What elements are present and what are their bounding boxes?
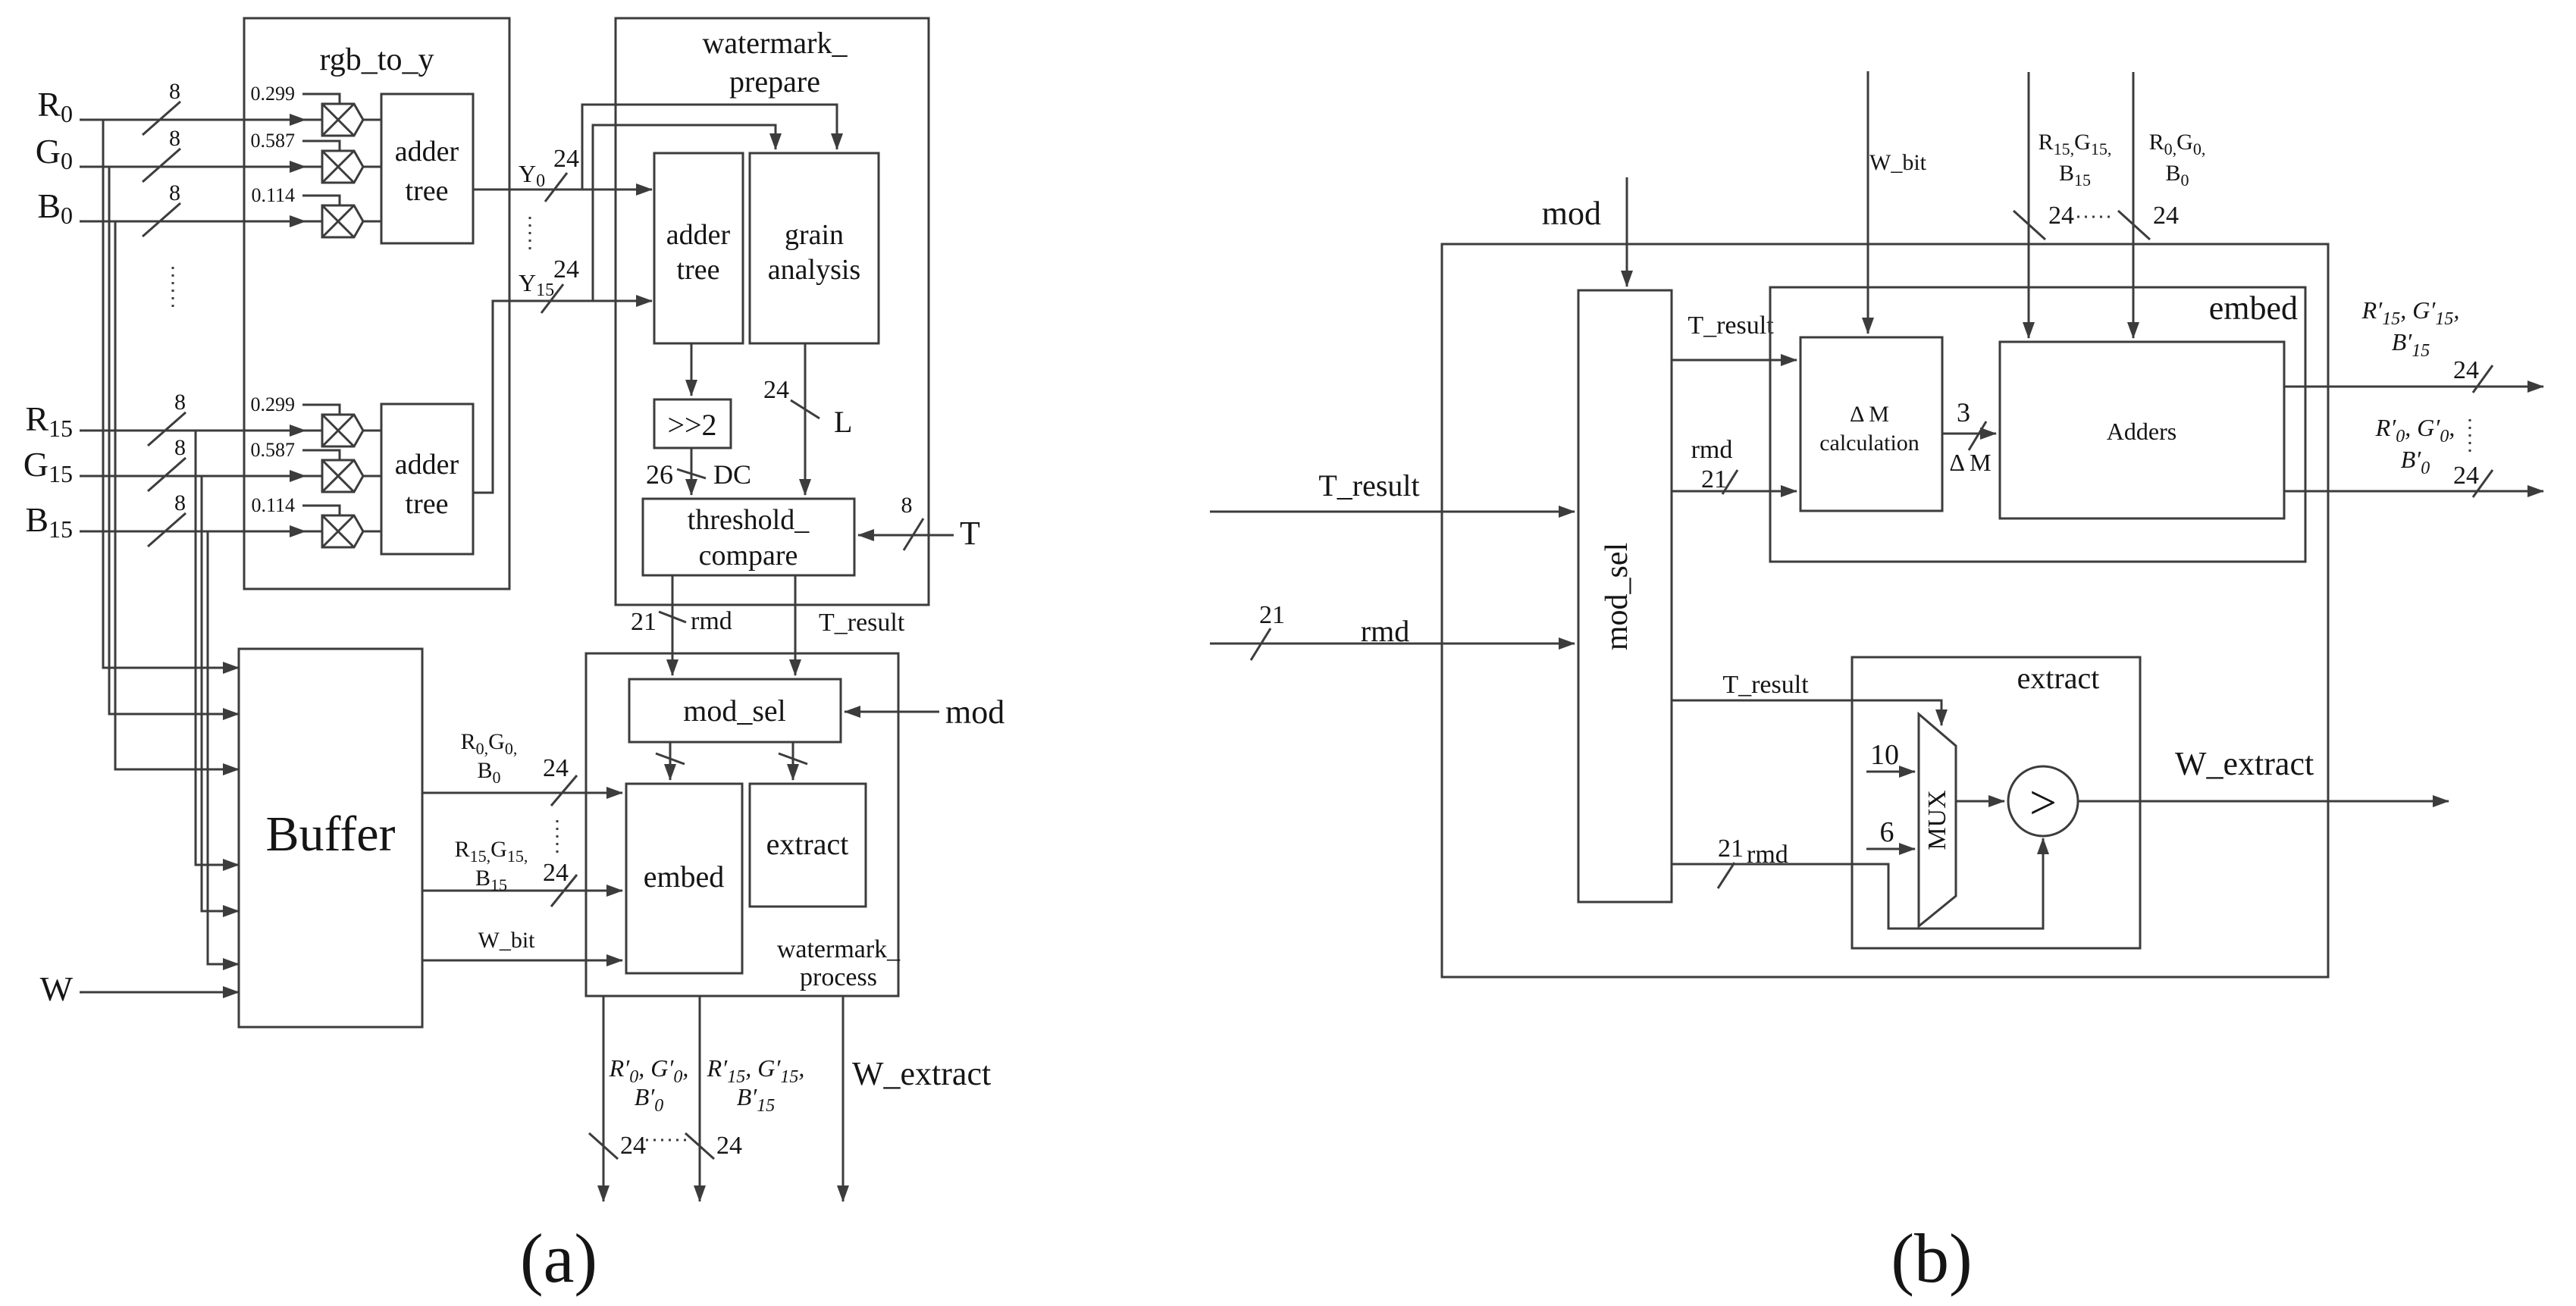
node constant 10 (1870, 739, 1899, 771)
svg-text:T_result: T_result (819, 609, 905, 637)
svg-text:24: 24 (543, 754, 569, 782)
wire R0G0B0 to Adders (2133, 72, 2135, 338)
wire mult G15 to adder tree B (363, 475, 381, 478)
wire Y0 riser to grain analysis (582, 105, 837, 189)
svg-text:0.114: 0.114 (251, 184, 295, 206)
svg-text:rmd: rmd (1691, 436, 1733, 464)
wire B15 branch to Buffer (208, 531, 239, 964)
svg-text:24: 24 (763, 376, 789, 404)
node Y0 (519, 145, 579, 202)
svg-text:process: process (800, 963, 877, 991)
svg-text:24: 24 (543, 859, 569, 887)
svg-text:24: 24 (716, 1132, 742, 1160)
svg-text:mod: mod (945, 694, 1004, 731)
svg-text:0.114: 0.114 (251, 494, 295, 516)
svg-text:W: W (40, 969, 74, 1008)
block mod_sel (a) (629, 679, 841, 742)
wire grain analysis to threshold_compare (L) (804, 343, 807, 495)
wire T to threshold_compare (858, 534, 954, 537)
wire Adders output R'0 (2284, 490, 2543, 493)
node R'0,G'0,B'0 label (609, 1054, 689, 1116)
wire dM calculation to Adders (1942, 433, 1996, 435)
wire G15 branch to Buffer (202, 476, 239, 911)
wire R15 input (80, 424, 322, 437)
svg-text:Δ M: Δ M (1850, 402, 1889, 427)
node R'15,G'15,B'15 label (707, 1054, 805, 1116)
dots between outputs (b) (2469, 419, 2471, 453)
svg-text:24: 24 (2453, 356, 2479, 384)
svg-text:21: 21 (631, 608, 657, 636)
multiplier 0.299 (R0) (322, 104, 363, 136)
svg-text:3: 3 (1957, 397, 1970, 428)
block threshold_compare (643, 499, 854, 575)
svg-text:(a): (a) (520, 1220, 597, 1297)
bus width 8 (G0) (143, 126, 180, 182)
bus width 21 rmd (631, 607, 732, 636)
svg-text:mod_sel: mod_sel (1600, 543, 1634, 650)
svg-text:R15: R15 (25, 399, 73, 442)
wire output R'15 G'15 B'15 (699, 996, 701, 1201)
bus width 26 DC (646, 459, 751, 490)
wire G0 branch to Buffer (109, 167, 239, 714)
wire constant 10 to MUX (1866, 771, 1915, 773)
svg-text:watermark_: watermark_ (702, 26, 848, 60)
svg-text:threshold_: threshold_ (688, 504, 810, 536)
node R15,G15,B15 (b top) (2013, 130, 2111, 240)
bus width 3 dM (1949, 397, 1991, 476)
wire W input to Buffer (80, 991, 239, 994)
multiplier 0.587 (G0) (322, 151, 363, 183)
svg-text:0.299: 0.299 (251, 393, 296, 415)
svg-text:W_bit: W_bit (1869, 150, 1927, 175)
svg-text:>>2: >>2 (667, 408, 716, 442)
svg-text:DC: DC (713, 459, 751, 490)
svg-text:T_result: T_result (1318, 468, 1419, 503)
bus width 24 (b out2) (2453, 462, 2493, 497)
svg-text:adder: adder (666, 219, 731, 251)
svg-text:8: 8 (174, 435, 186, 460)
svg-text:analysis: analysis (768, 254, 860, 286)
svg-text:compare: compare (699, 540, 798, 572)
svg-text:calculation: calculation (1819, 431, 1919, 456)
svg-text:W_extract: W_extract (852, 1055, 991, 1092)
svg-text:Y0: Y0 (519, 160, 545, 191)
wire rmd input to mod_sel (b) (1210, 643, 1575, 645)
svg-text:R15,G15,: R15,G15, (455, 837, 528, 866)
wire output R'0 G'0 B'0 (603, 996, 605, 1201)
svg-text:Buffer: Buffer (265, 806, 395, 862)
block extract (b) (1852, 657, 2140, 948)
wire mod_sel T_result to MUX select (1672, 700, 1941, 725)
svg-text:8: 8 (169, 180, 180, 205)
svg-text:G15: G15 (24, 445, 73, 487)
svg-text:MUX: MUX (1923, 790, 1951, 850)
svg-text:R0: R0 (37, 85, 73, 127)
bus width 8 (R15) (148, 390, 186, 446)
svg-text:grain: grain (785, 219, 844, 251)
svg-text:mod_sel: mod_sel (683, 694, 786, 728)
block mod_sel (b) (1578, 290, 1672, 902)
wire mod to mod_sel (a) (845, 711, 939, 713)
wire mult R15 to adder tree B (363, 430, 381, 432)
svg-text:T_result: T_result (1688, 312, 1774, 340)
svg-text:10: 10 (1870, 739, 1899, 771)
bus width 24 (b out1) (2453, 356, 2493, 393)
wire T_result input to mod_sel (b) (1210, 511, 1575, 513)
svg-text:L: L (834, 405, 852, 439)
svg-text:B15: B15 (475, 866, 507, 894)
svg-text:24: 24 (620, 1132, 646, 1160)
node Y15 (519, 255, 579, 313)
node constant 6 (1880, 816, 1894, 848)
wire output W_extract (842, 996, 845, 1201)
node R15,G15,B15 bus label (455, 837, 577, 907)
multiplier 0.114 (B0) (322, 205, 363, 237)
svg-text:B′15: B′15 (737, 1083, 776, 1116)
node R0,G0,B0 bus label (461, 729, 577, 806)
svg-text:8: 8 (174, 390, 186, 415)
wire rmd threshold to mod_sel (672, 575, 674, 675)
svg-text:B′15: B′15 (2392, 328, 2430, 361)
svg-text:embed: embed (644, 860, 725, 894)
wire MUX output to comparator (1956, 800, 2004, 803)
dots between Y0 and Y15 (529, 217, 531, 255)
svg-text:R′15, G′15,: R′15, G′15, (707, 1054, 805, 1087)
wire T_result threshold to mod_sel (794, 575, 797, 675)
wire mod_sel to embed (a) (656, 742, 685, 780)
wire mod to mod_sel (b) (1626, 177, 1628, 287)
block watermark_process (586, 653, 898, 996)
block watermark_prepare (616, 18, 929, 605)
bus width 8 (B15) (148, 490, 186, 547)
svg-text:8: 8 (169, 79, 180, 104)
wire G15 input (80, 470, 322, 482)
wire B0 branch to Buffer (115, 221, 239, 769)
wire R0 branch to Buffer (103, 120, 239, 668)
wire Y15 riser to grain analysis (593, 125, 776, 301)
svg-text:mod: mod (1542, 195, 1601, 232)
svg-text:21: 21 (1259, 601, 1285, 629)
wire mult G0 to adder tree A (363, 166, 381, 168)
block shifter >>2 (654, 399, 731, 448)
svg-text:embed: embed (2209, 290, 2298, 327)
coefficient 0.587 (G15) (251, 439, 340, 461)
block extract (a) (750, 784, 866, 907)
wire B15 input (80, 525, 322, 537)
svg-text:26: 26 (646, 459, 673, 490)
wire R15 branch to Buffer (196, 431, 239, 865)
svg-text:>: > (2029, 775, 2057, 829)
multiplier 0.114 (B15) (322, 515, 363, 547)
bus width 8 (B0) (143, 180, 180, 236)
svg-text:24: 24 (553, 255, 579, 283)
svg-text:B′0: B′0 (2401, 446, 2430, 478)
svg-text:21: 21 (1718, 835, 1744, 863)
svg-text:8: 8 (169, 126, 180, 151)
wire G0 input (80, 161, 322, 173)
node rmd input (b) (1251, 601, 1409, 660)
dots between buffer buses (556, 820, 559, 857)
svg-text:R′15, G′15,: R′15, G′15, (2361, 296, 2460, 329)
wire mod_sel to dM calculation (rmd 21) (1672, 490, 1797, 493)
node T input (901, 493, 981, 552)
wire mod_sel to dM calculation (T_result) (1672, 359, 1797, 362)
svg-text:0.299: 0.299 (251, 83, 296, 105)
block Buffer (239, 649, 422, 1027)
svg-text:0.587: 0.587 (251, 439, 296, 461)
wire R15G15B15 to Adders (2028, 72, 2030, 338)
block embed (a) (626, 784, 742, 973)
svg-text:W_bit: W_bit (478, 928, 536, 953)
svg-text:tree: tree (677, 254, 720, 286)
svg-text:24: 24 (2048, 202, 2074, 230)
svg-text:W_extract: W_extract (2175, 745, 2314, 782)
bus width 8 (R0) (143, 79, 180, 135)
svg-text:tree: tree (406, 175, 449, 207)
wire shifter to threshold_compare (DC) (691, 448, 693, 495)
comparator circle (2008, 766, 2078, 836)
block rgb_to_y (244, 18, 509, 589)
block adder tree B (381, 404, 473, 554)
wire wm adder tree to shifter (691, 343, 693, 396)
svg-text:adder: adder (395, 136, 459, 168)
wire constant 6 to MUX (1866, 848, 1915, 850)
bus width 24 output a1 (589, 1132, 646, 1160)
svg-text:6: 6 (1880, 816, 1894, 848)
block embed (b) (1770, 287, 2305, 562)
svg-text:prepare: prepare (729, 64, 820, 99)
svg-text:rmd: rmd (691, 607, 732, 635)
wire Buffer to embed R15G15B15 (422, 890, 622, 892)
svg-text:watermark_: watermark_ (777, 935, 901, 963)
wire mult B15 to adder tree B (363, 531, 381, 533)
multiplier 0.299 (R15) (322, 415, 363, 446)
svg-text:rgb_to_y: rgb_to_y (320, 42, 434, 77)
block (b) outer (1442, 244, 2328, 977)
coefficient 0.299 (R15) (251, 393, 340, 415)
bus width 24 output a2 (685, 1132, 742, 1160)
svg-text:R′0, G′0,: R′0, G′0, (2375, 414, 2455, 446)
svg-text:24: 24 (2453, 462, 2479, 490)
svg-text:extract: extract (766, 827, 849, 861)
svg-text:B0: B0 (477, 758, 500, 787)
svg-text:R′0, G′0,: R′0, G′0, (609, 1054, 689, 1087)
wire comparator output W_extract (2078, 800, 2449, 803)
svg-text:B15: B15 (25, 500, 73, 543)
svg-text:21: 21 (1701, 465, 1727, 493)
svg-text:Y15: Y15 (519, 269, 554, 300)
node R0,G0,B0 (b top) (2118, 130, 2205, 240)
wire mod_sel rmd to comparator (1672, 838, 2043, 929)
block Adders (2000, 342, 2284, 518)
svg-text:T: T (960, 515, 980, 552)
svg-text:extract: extract (2017, 661, 2100, 695)
wire Buffer to embed R0G0B0 (422, 792, 622, 794)
node R'15,G'15,B'15 label (b) (2361, 296, 2460, 361)
svg-text:B0: B0 (2165, 161, 2189, 189)
node rmd 21 label (b) (1691, 436, 1738, 494)
svg-text:0.587: 0.587 (251, 130, 296, 152)
svg-text:B′0: B′0 (635, 1083, 664, 1116)
wire R0 input (80, 114, 322, 126)
mux MUX (1919, 714, 1956, 926)
svg-text:R0,G0,: R0,G0, (461, 729, 518, 758)
coefficient 0.299 (R0) (251, 83, 340, 105)
node R'0,G'0,B'0 label (b) (2375, 414, 2455, 478)
svg-text:(b): (b) (1891, 1220, 1972, 1297)
dots between input groups (172, 267, 174, 312)
svg-text:8: 8 (174, 490, 186, 515)
svg-text:8: 8 (901, 493, 913, 518)
block adder tree A (381, 94, 473, 243)
coefficient 0.587 (G0) (251, 130, 340, 152)
dots between top buses (b) (2077, 216, 2115, 218)
svg-text:G0: G0 (36, 132, 73, 174)
svg-text:Adders: Adders (2107, 418, 2176, 445)
node 21 rmd label (b extract) (1718, 835, 1788, 888)
wire B0 input (80, 215, 322, 227)
svg-text:B15: B15 (2059, 161, 2091, 189)
wire mult R0 to adder tree A (363, 119, 381, 121)
dots between outputs (646, 1139, 687, 1142)
svg-text:B0: B0 (37, 186, 73, 229)
wire Y0 adder tree A to wm adder tree (472, 189, 652, 191)
svg-text:R15,G15,: R15,G15, (2039, 130, 2112, 158)
bus width 8 (G15) (148, 435, 186, 491)
svg-text:T_result: T_result (1722, 671, 1809, 699)
wire mult B0 to adder tree A (363, 221, 381, 223)
wire Y15 adder tree B to wm adder tree (473, 301, 652, 493)
multiplier 0.587 (G15) (322, 460, 363, 492)
wire mod_sel to extract (a) (779, 742, 807, 780)
label watermark_process (777, 935, 901, 991)
bus width 24 L (763, 376, 852, 439)
block dM calculation (1800, 337, 1942, 511)
svg-text:24: 24 (553, 145, 579, 173)
block wm adder tree (654, 153, 743, 343)
block grain analysis (750, 153, 879, 343)
wire W_bit to dM calculation (1867, 71, 1869, 334)
wire Adders output R'15 (2284, 386, 2543, 388)
svg-text:tree: tree (406, 488, 449, 520)
svg-text:R0,G0,: R0,G0, (2149, 130, 2206, 158)
svg-text:24: 24 (2153, 202, 2179, 230)
coefficient 0.114 (B0) (251, 184, 340, 206)
svg-text:Δ M: Δ M (1949, 449, 1991, 476)
coefficient 0.114 (B15) (251, 494, 340, 516)
wire Buffer to embed W_bit (422, 960, 622, 962)
svg-text:adder: adder (395, 449, 459, 481)
